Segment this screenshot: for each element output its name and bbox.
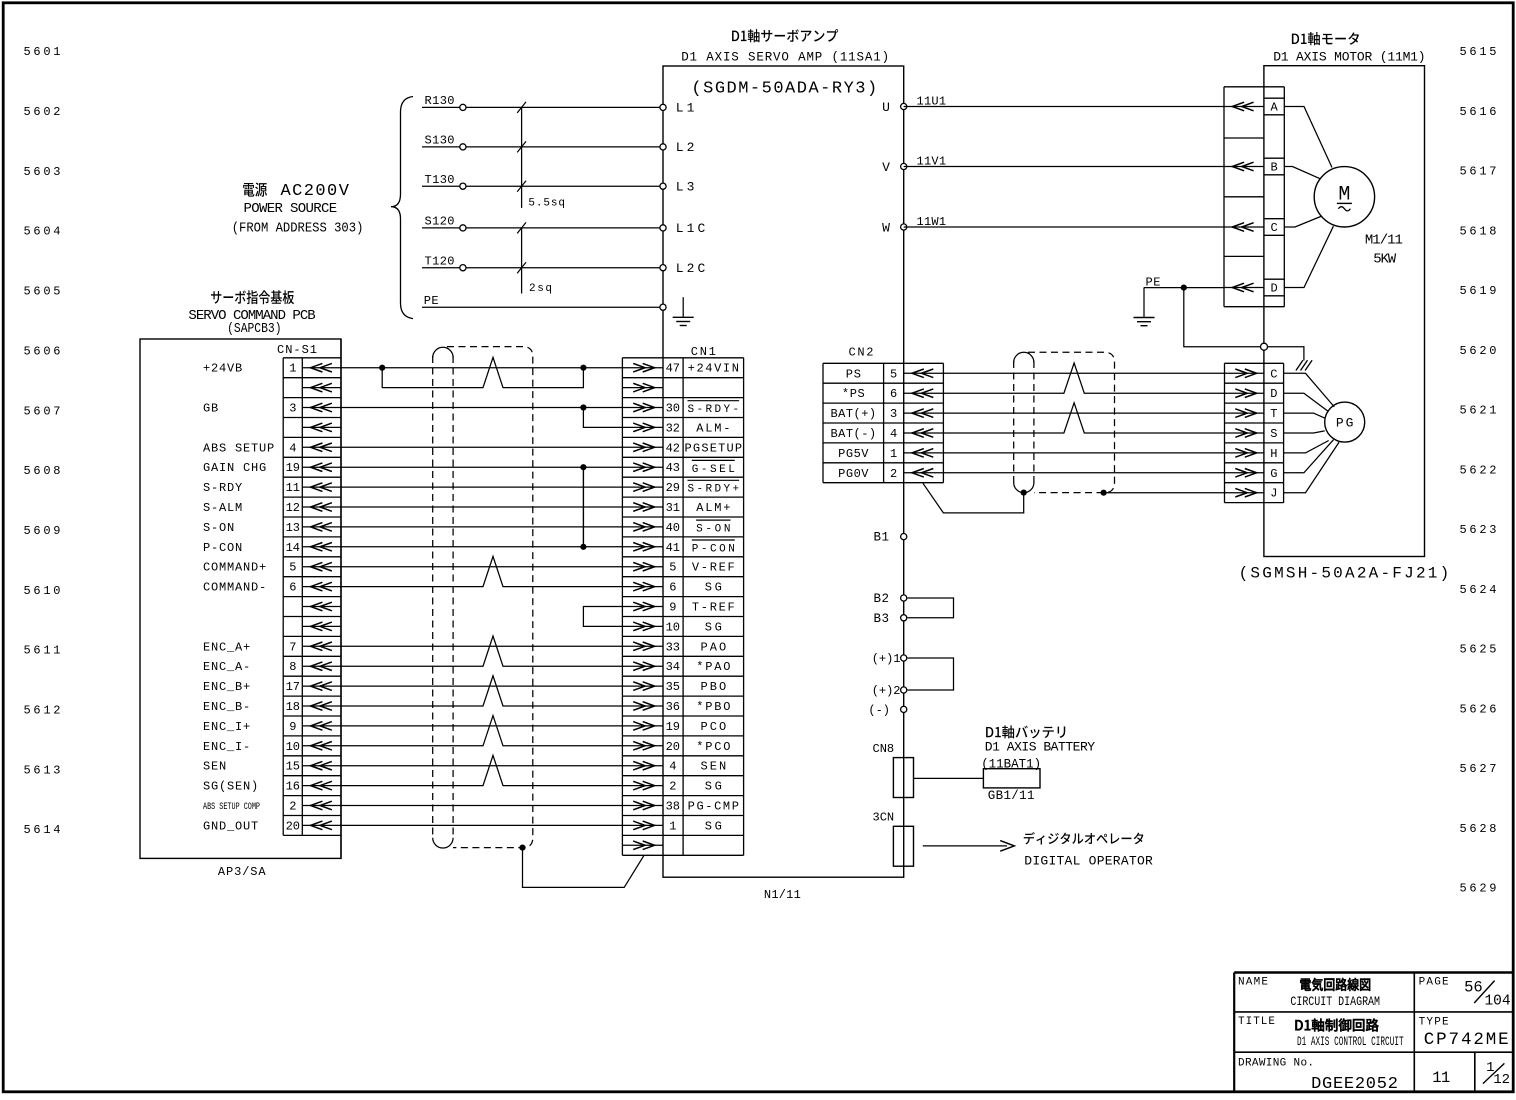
svg-text:ABS SETUP COMP: ABS SETUP COMP: [203, 801, 260, 813]
jumper wire (+)1 to (+)2: [908, 658, 954, 690]
CN2 arrow: [904, 429, 944, 438]
wire jumper S-RDY- to ALM-: [583, 408, 622, 428]
svg-text:(+)2: (+)2: [872, 684, 901, 698]
svg-text:2: 2: [890, 467, 897, 481]
wire CN2 BAT(-) to PG pin S: [943, 403, 1224, 433]
wire CN-S1 pin 20 to CN1 pin 1: [341, 824, 622, 826]
CN2 shell ground wire to shield: [923, 483, 1024, 513]
svg-text:PE: PE: [424, 294, 439, 308]
CN-S1 arrow: [302, 463, 341, 472]
svg-text:S130: S130: [425, 134, 455, 148]
svg-text:T120: T120: [425, 255, 455, 269]
svg-text:V: V: [882, 160, 890, 175]
svg-text:42: 42: [666, 441, 680, 455]
CN1 arrow: [622, 523, 663, 532]
svg-text:S-RDY: S-RDY: [203, 481, 243, 495]
svg-text:D1 AXIS BATTERY: D1 AXIS BATTERY: [985, 740, 1095, 755]
amp terminal B3: [901, 615, 907, 621]
svg-text:ENC_A+: ENC_A+: [203, 640, 251, 654]
wire motor pin C to motor: [1284, 216, 1322, 227]
CN-S1 arrow: [302, 801, 341, 810]
svg-text:20: 20: [666, 740, 680, 754]
svg-text:COMMAND+: COMMAND+: [203, 561, 267, 575]
wire 11W1 amp to motor pin C: [904, 226, 1224, 228]
svg-text:5KW: 5KW: [1373, 252, 1397, 268]
CN1 arrow: [622, 722, 663, 731]
svg-text:10: 10: [286, 740, 300, 754]
svg-text:GB: GB: [203, 402, 219, 416]
svg-text:ENC_I-: ENC_I-: [203, 740, 251, 754]
title D1軸制御回路: [1295, 1019, 1378, 1032]
svg-text:V-REF: V-REF: [692, 561, 735, 575]
junction dot: [580, 464, 586, 470]
junction dot shield: [519, 845, 525, 851]
CN2 arrow: [904, 369, 944, 378]
CN-S1 arrow: [302, 662, 341, 671]
CN-S1 arrow: [302, 423, 341, 432]
amp terminal L1: [660, 104, 666, 110]
svg-text:6: 6: [890, 387, 897, 401]
wire S120 to servo amp: [422, 227, 663, 229]
svg-text:L2: L2: [676, 140, 698, 155]
junction dot: [1021, 490, 1027, 496]
CN1 arrow: [622, 562, 663, 571]
servo amp 11SA1 box: [663, 66, 904, 877]
svg-text:2sq: 2sq: [529, 283, 552, 295]
svg-text:11: 11: [286, 481, 300, 495]
wire CN-S1 pin 16 to CN1 pin 2: [341, 755, 622, 785]
svg-text:D1 AXIS SERVO AMP (11SA1): D1 AXIS SERVO AMP (11SA1): [681, 50, 889, 64]
label ディジタルオペレータ: [1024, 832, 1144, 844]
svg-text:TITLE: TITLE: [1238, 1016, 1275, 1028]
svg-text:P-CON: P-CON: [203, 541, 243, 555]
PG connector arrow: [1225, 369, 1264, 378]
wire CN-S1 pin 8 to CN1 pin 34: [341, 636, 622, 666]
CN1 arrow: [622, 702, 663, 711]
svg-text:4: 4: [289, 441, 296, 455]
svg-text:S: S: [1270, 427, 1277, 441]
wire CN-S1 pin 12 to CN1 pin 31: [341, 506, 622, 508]
motor connector arrow: [1224, 162, 1264, 171]
svg-text:SEN: SEN: [203, 760, 227, 774]
svg-text:30: 30: [666, 402, 680, 416]
svg-text:ENC_B+: ENC_B+: [203, 680, 251, 694]
svg-text:12: 12: [1493, 1072, 1510, 1088]
terminal circle S130: [460, 144, 466, 150]
svg-text:2: 2: [669, 780, 676, 794]
wire CN2 BAT(+) to PG pin T: [943, 412, 1224, 414]
servo command PCB box AP3/SA: [140, 339, 341, 858]
PG connector arrow: [1225, 409, 1264, 418]
svg-text:L3: L3: [676, 180, 698, 195]
svg-text:(SAPCB3): (SAPCB3): [227, 322, 281, 337]
amp output terminal V: [901, 163, 907, 169]
svg-text:*PAO: *PAO: [696, 660, 730, 674]
CN1 arrow: [622, 761, 663, 770]
wire CN8 to battery: [914, 777, 984, 779]
amp output terminal W: [901, 224, 907, 230]
terminal circle T130: [460, 183, 466, 189]
CN2 arrow: [904, 389, 944, 398]
svg-text:GAIN CHG: GAIN CHG: [203, 461, 267, 475]
motor connector arrow: [1224, 223, 1264, 232]
svg-text:41: 41: [666, 541, 680, 555]
CN1 arrow: [622, 821, 663, 830]
connector CN1 table: [622, 358, 743, 856]
svg-text:B3: B3: [873, 612, 889, 626]
svg-text:PCO: PCO: [700, 720, 726, 734]
svg-text:CN2: CN2: [849, 346, 874, 360]
svg-text:D1 AXIS MOTOR (11M1): D1 AXIS MOTOR (11M1): [1273, 50, 1425, 65]
CN-S1 arrow: [302, 682, 341, 691]
wire CN-S1 pin 18 to CN1 pin 36: [341, 676, 622, 706]
wire CN-S1 pin 7 to CN1 pin 33: [341, 645, 622, 647]
wire PG pin D to encoder: [1284, 393, 1329, 412]
page number 56/104: [1464, 979, 1510, 1010]
svg-text:TYPE: TYPE: [1419, 1016, 1449, 1028]
svg-text:BAT(-): BAT(-): [831, 427, 877, 441]
svg-text:1: 1: [890, 447, 897, 461]
CN2 arrow: [904, 469, 944, 478]
shield drain wire to CN1: [523, 848, 644, 888]
amp terminal (+)1: [901, 655, 907, 661]
amp terminal L1C: [660, 225, 666, 231]
svg-text:G: G: [1270, 467, 1277, 481]
junction dot: [580, 544, 586, 550]
svg-text:4: 4: [669, 760, 676, 774]
svg-text:PG5V: PG5V: [838, 447, 869, 461]
wire CN-S1 pin 5 to CN1 pin 5: [341, 566, 622, 568]
wire CN-S1 pin 13 to CN1 pin 40: [341, 526, 622, 528]
earth ground (motor PE): [1143, 288, 1145, 318]
CN-S1 arrow: [302, 503, 341, 512]
svg-text:9: 9: [669, 601, 676, 615]
wire CN-S1 pin 11 to CN1 pin 29: [341, 486, 622, 488]
shield wire to PG pin J: [1104, 492, 1225, 494]
wire 11U1 amp to motor pin A: [904, 106, 1224, 108]
amp terminal PE: [660, 304, 666, 310]
motor PG connector table: [1225, 363, 1284, 502]
svg-text:P-CON: P-CON: [692, 543, 735, 555]
CN-S1 arrow: [302, 761, 341, 770]
servo command PCB title サーボ指令基板: [211, 290, 294, 304]
svg-text:31: 31: [666, 501, 680, 515]
wire motor pin D to motor: [1284, 226, 1333, 287]
CN1 arrow: [622, 443, 663, 452]
svg-text:D: D: [1270, 387, 1277, 401]
svg-text:5.5sq: 5.5sq: [528, 198, 565, 210]
svg-text:CP742ME: CP742ME: [1424, 1030, 1509, 1050]
svg-text:N1/11: N1/11: [764, 888, 801, 902]
svg-text:T: T: [1270, 407, 1277, 421]
wire PE to servo amp: [422, 306, 663, 308]
CN1 arrow: [622, 662, 663, 671]
svg-text:J: J: [1270, 487, 1277, 501]
terminal circle R130: [460, 104, 466, 110]
svg-text:11V1: 11V1: [917, 155, 947, 169]
wire motor pin A to motor: [1284, 107, 1332, 168]
svg-text:11W1: 11W1: [917, 215, 947, 229]
svg-text:(SGDM-50ADA-RY3): (SGDM-50ADA-RY3): [691, 79, 877, 98]
CN-S1 arrow: [302, 403, 341, 412]
svg-text:CN-S1: CN-S1: [277, 343, 317, 357]
wire PG pin S to encoder: [1284, 431, 1325, 433]
motor title D1軸モータ: [1292, 32, 1359, 45]
svg-text:DRAWING No.: DRAWING No.: [1238, 1058, 1314, 1070]
svg-text:14: 14: [286, 541, 300, 555]
svg-text:M1/11: M1/11: [1365, 232, 1403, 248]
wire CN-S1 pin 15 to CN1 pin 4: [341, 765, 622, 767]
svg-text:3: 3: [289, 402, 296, 416]
svg-text:1: 1: [289, 362, 296, 376]
wire PG pin C to encoder: [1284, 373, 1335, 407]
svg-text:38: 38: [666, 800, 680, 814]
encoder PG symbol: [1325, 402, 1365, 442]
motor pin cell C: [1264, 219, 1284, 236]
svg-text:1: 1: [669, 819, 676, 833]
CN1 arrow: [622, 801, 663, 810]
amp terminal L3: [660, 183, 666, 189]
svg-text:104: 104: [1484, 993, 1510, 1009]
svg-text:56: 56: [1464, 979, 1483, 997]
svg-text:5: 5: [890, 367, 897, 381]
wire CN2 PG5V to PG pin H: [943, 452, 1224, 454]
svg-text:18: 18: [286, 700, 300, 714]
wire R130 to servo amp: [422, 106, 663, 108]
svg-text:(+)1: (+)1: [872, 652, 901, 666]
connector 3CN: [893, 826, 913, 866]
amp terminal (+)2: [901, 687, 907, 693]
svg-text:29: 29: [666, 481, 680, 495]
CN-S1 arrow: [302, 781, 341, 790]
terminal circle S120: [460, 225, 466, 231]
CN-S1 arrow: [302, 543, 341, 552]
svg-text:32: 32: [666, 421, 680, 435]
CN-S1 arrow: [302, 383, 341, 392]
CN1 arrow: [622, 543, 663, 552]
PG connector arrow: [1225, 429, 1264, 438]
wire CN2 *PS to PG pin D: [943, 363, 1224, 393]
svg-text:34: 34: [666, 660, 680, 674]
svg-text:R130: R130: [425, 94, 455, 108]
svg-text:6: 6: [289, 581, 296, 595]
svg-text:PGSETUP: PGSETUP: [685, 441, 743, 455]
wire pair loop +24V second conductor: [382, 357, 583, 387]
svg-text:B1: B1: [873, 531, 889, 545]
motor pin cell D: [1264, 279, 1284, 296]
wire PG pin G to encoder: [1284, 440, 1334, 473]
wire CN-S1 pin 10 to CN1 pin 20: [341, 716, 622, 746]
motor 11M1 box: [1264, 66, 1425, 557]
svg-text:ALM-: ALM-: [696, 421, 730, 435]
wire CN-S1 pin 6 to CN1 pin 6: [341, 556, 622, 586]
svg-text:T-REF: T-REF: [692, 601, 735, 615]
wire PG pin J to encoder: [1284, 442, 1340, 493]
svg-text:4: 4: [890, 427, 897, 441]
svg-text:DIGITAL OPERATOR: DIGITAL OPERATOR: [1024, 854, 1153, 869]
amp terminal (-): [901, 706, 907, 712]
CN1 arrow: [622, 363, 663, 372]
motor pin cell B: [1264, 158, 1284, 175]
svg-text:POWER SOURCE: POWER SOURCE: [244, 201, 338, 217]
svg-text:B2: B2: [873, 592, 889, 606]
chassis ground (PG shield): [1296, 360, 1312, 370]
junction dot: [379, 365, 385, 371]
junction dot: [1101, 490, 1107, 496]
wire motor pin B to motor: [1284, 167, 1320, 179]
PG connector arrow: [1225, 488, 1264, 497]
connector CN8: [893, 758, 913, 798]
wire S130 to servo amp: [422, 146, 663, 148]
svg-text:*PBO: *PBO: [696, 700, 730, 714]
CN-S1 arrow: [302, 443, 341, 452]
svg-text:3CN: 3CN: [873, 811, 895, 825]
CN1 arrow: [622, 781, 663, 790]
CN-S1 arrow: [302, 742, 341, 751]
amp terminal L2: [660, 144, 666, 150]
amp internal earth ground (power input): [682, 297, 684, 317]
PG connector arrow: [1225, 449, 1264, 458]
wire CN-S1 pin 3 to CN1 pin 30: [341, 407, 622, 409]
svg-text:L1: L1: [676, 101, 698, 116]
svg-text:D1 AXIS CONTROL CIRCUIT: D1 AXIS CONTROL CIRCUIT: [1297, 1035, 1404, 1049]
svg-text:NAME: NAME: [1238, 976, 1268, 988]
svg-text:40: 40: [666, 521, 680, 535]
cable gauge group 5.5sq: [521, 107, 523, 207]
svg-text:ENC_I+: ENC_I+: [203, 720, 251, 734]
battery GB1 box: [983, 769, 1040, 788]
junction dot PE: [1181, 285, 1187, 291]
connector CN-S1 table: [283, 339, 341, 858]
svg-text:43: 43: [666, 461, 680, 475]
svg-text:5: 5: [289, 561, 296, 575]
svg-text:G-SEL: G-SEL: [692, 464, 735, 476]
motor power connector table: [1224, 87, 1284, 307]
svg-text:ALM+: ALM+: [696, 501, 730, 515]
junction dot: [580, 404, 586, 410]
shield cable bundle CN-S1/CN1: [433, 347, 533, 848]
svg-text:D: D: [1270, 282, 1277, 296]
svg-text:T130: T130: [425, 173, 455, 187]
amp terminal L2C: [660, 265, 666, 271]
svg-text:GB1/11: GB1/11: [988, 789, 1035, 803]
CN-S1 arrow: [302, 363, 341, 372]
svg-text:B: B: [1270, 161, 1277, 175]
title block: [1234, 973, 1513, 1093]
svg-text:PG: PG: [1336, 415, 1354, 430]
svg-text:CN8: CN8: [873, 742, 895, 756]
motor connector arrow: [1224, 102, 1264, 111]
svg-text:6: 6: [669, 581, 676, 595]
left margin grid line numbers 5601-5614: [24, 45, 61, 837]
amp terminal B1: [901, 534, 907, 540]
svg-text:CIRCUIT DIAGRAM: CIRCUIT DIAGRAM: [1290, 994, 1380, 1009]
power source label 電源 AC200V: [243, 182, 267, 196]
svg-text:S-ON: S-ON: [203, 521, 235, 535]
svg-text:5: 5: [669, 561, 676, 575]
PG connector arrow: [1225, 469, 1264, 478]
svg-text:PAO: PAO: [700, 640, 726, 654]
wire CN-S1 pin 14 to CN1 pin 41: [341, 546, 622, 548]
svg-text:SEN: SEN: [700, 760, 726, 774]
svg-text:PG0V: PG0V: [838, 467, 869, 481]
amp terminal B2: [901, 595, 907, 601]
CN1 arrow: [622, 602, 663, 611]
CN-S1 arrow: [302, 483, 341, 492]
wire CN-S1 pin 19 to CN1 pin 43: [341, 466, 622, 468]
svg-text:36: 36: [666, 700, 680, 714]
svg-text:PAGE: PAGE: [1419, 976, 1449, 988]
svg-text:W: W: [882, 220, 890, 235]
svg-text:20: 20: [286, 819, 300, 833]
wire CN-S1 pin 4 to CN1 pin 42: [341, 446, 622, 448]
CN2 arrow: [904, 449, 944, 458]
wire PE to PG shield ground: [1184, 288, 1304, 361]
svg-text:ENC_A-: ENC_A-: [203, 660, 251, 674]
CN1 arrow: [622, 642, 663, 651]
CN1 arrow: [622, 503, 663, 512]
svg-text:A: A: [1270, 101, 1278, 115]
svg-text:9: 9: [289, 720, 296, 734]
amp output terminal U: [901, 103, 907, 109]
svg-text:C: C: [1270, 367, 1277, 381]
svg-text:U: U: [882, 100, 890, 115]
svg-text:H: H: [1270, 447, 1277, 461]
CN1 arrow: [622, 383, 663, 392]
svg-text:L2C: L2C: [676, 261, 709, 276]
wire CN-S1 pin 1 to CN1 pin 47: [341, 367, 622, 369]
CN-S1 arrow: [302, 642, 341, 651]
svg-text:8: 8: [289, 660, 296, 674]
CN-S1 arrow: [302, 582, 341, 591]
svg-text:11: 11: [1432, 1069, 1450, 1087]
svg-text:*PS: *PS: [842, 387, 865, 401]
CN-S1 arrow: [302, 622, 341, 631]
title 電気回路線図: [1300, 978, 1370, 991]
svg-text:+24VB: +24VB: [203, 362, 243, 376]
svg-text:SG(SEN): SG(SEN): [203, 780, 259, 794]
svg-text:*PCO: *PCO: [696, 740, 730, 754]
wire T130 to servo amp: [422, 185, 663, 187]
svg-text:L1C: L1C: [676, 221, 709, 236]
CN2 arrow: [904, 409, 944, 418]
svg-text:PBO: PBO: [700, 680, 726, 694]
wire CN-S1 pin 2 to CN1 pin 38: [341, 805, 622, 807]
svg-text:13: 13: [286, 521, 300, 535]
svg-text:BAT(+): BAT(+): [831, 407, 877, 421]
wire T120 to servo amp: [422, 267, 663, 269]
CN1 arrow: [622, 841, 663, 850]
svg-text:11U1: 11U1: [917, 95, 947, 109]
terminal circle T120: [460, 265, 466, 271]
svg-text:CN1: CN1: [691, 345, 716, 359]
svg-text:(-): (-): [868, 703, 890, 717]
cable gauge group 2sq: [521, 228, 523, 294]
svg-text:COMMAND-: COMMAND-: [203, 581, 267, 595]
svg-text:33: 33: [666, 640, 680, 654]
svg-text:ABS SETUP: ABS SETUP: [203, 441, 275, 455]
svg-text:7: 7: [289, 640, 296, 654]
jumper wire B2 to B3: [908, 598, 954, 618]
svg-text:S120: S120: [425, 215, 455, 229]
svg-text:35: 35: [666, 680, 680, 694]
svg-text:PS: PS: [846, 367, 861, 381]
wire jumper T-REF to SG: [583, 607, 622, 627]
CN-S1 arrow: [302, 562, 341, 571]
svg-text:10: 10: [666, 620, 680, 634]
svg-text:17: 17: [286, 680, 300, 694]
CN1 arrow: [622, 483, 663, 492]
